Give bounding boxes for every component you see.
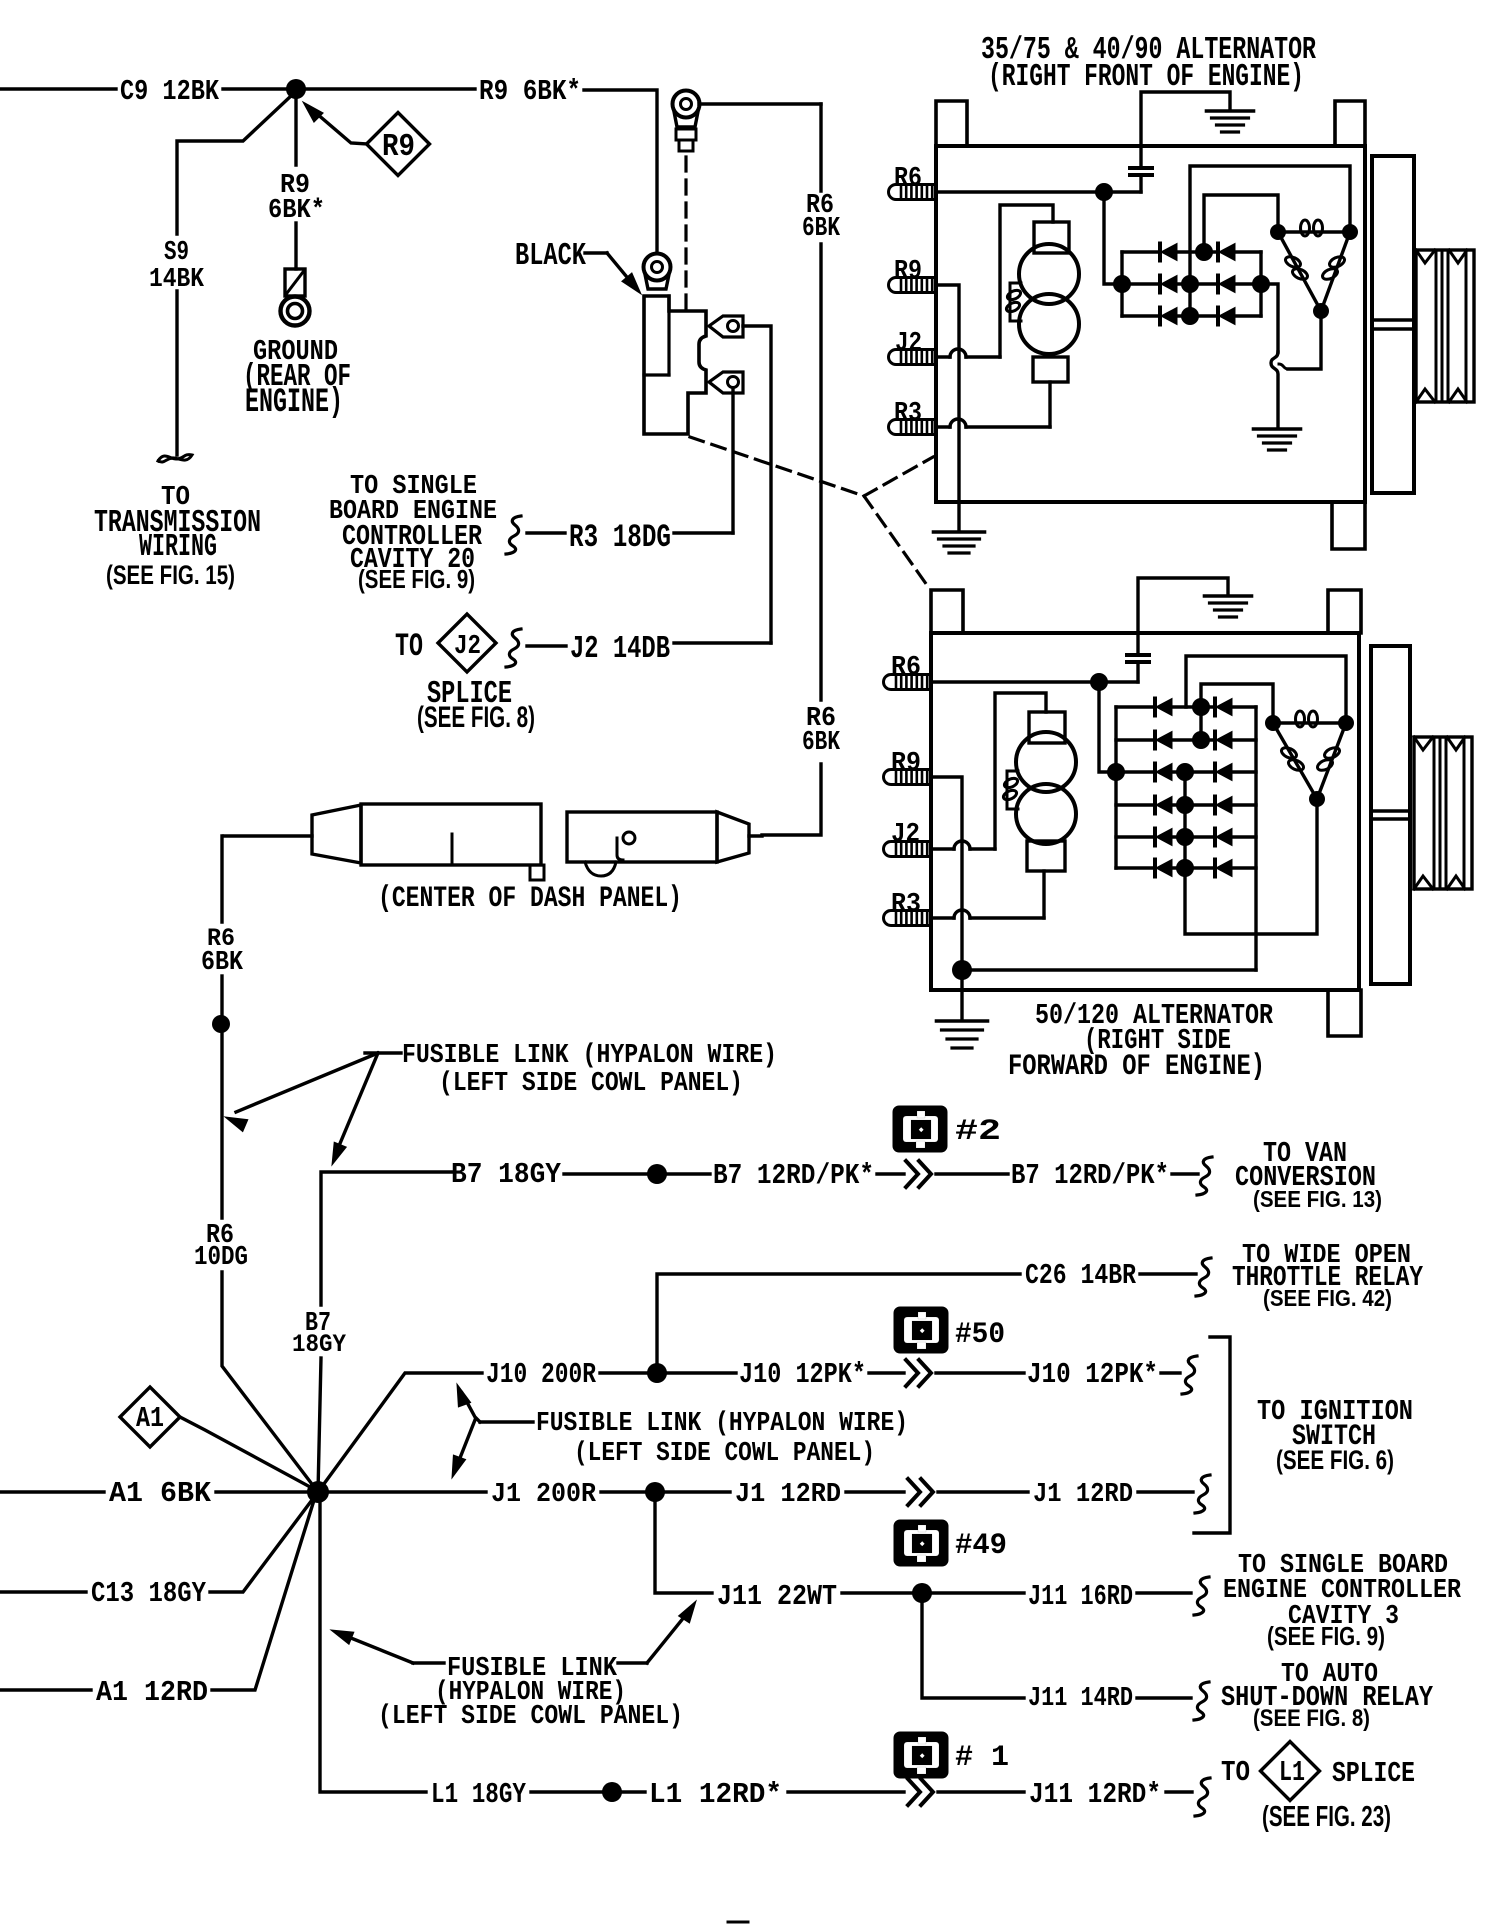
svg-text:TO: TO xyxy=(1221,1756,1250,1789)
svg-text:R9 6BK*: R9 6BK* xyxy=(479,75,581,108)
label #49 xyxy=(955,1528,1007,1562)
svg-text:J11 14RD: J11 14RD xyxy=(1028,1684,1133,1714)
label A1 in diamond xyxy=(136,1402,164,1435)
wire J2 14DB to connector xyxy=(674,641,771,644)
label (SEE FIG. 8) lower xyxy=(1253,1705,1370,1732)
svg-text:(SEE FIG. 9): (SEE FIG. 9) xyxy=(358,566,475,594)
bridge right rail alt2 xyxy=(1254,707,1257,970)
label R9 in diamond xyxy=(382,130,415,165)
wire B7 18GY to dot xyxy=(564,1172,648,1175)
wire R9 to bottom junction alt2 xyxy=(931,777,962,961)
wire row6 right alt2 xyxy=(1232,866,1256,869)
label FUSIBLE LINK (HYPALON WIRE) 1 xyxy=(402,1041,777,1071)
dashed pointer to alternators xyxy=(690,437,933,588)
wire C9 to junction xyxy=(223,87,288,90)
leader BLACK to connector xyxy=(585,253,641,294)
wire R6 6BK vertical (upper) xyxy=(819,104,822,191)
alt1 mounting tab bottom-right xyxy=(1332,502,1365,549)
label CAVITY 3 xyxy=(1288,1602,1399,1632)
bracket to ignition switch xyxy=(1194,1337,1230,1533)
connector chevron L1 xyxy=(908,1779,933,1805)
wire right bullet to R6 6BK xyxy=(749,834,762,837)
label J10 12PK* right xyxy=(1027,1358,1158,1391)
svg-text:(LEFT SIDE COWL PANEL): (LEFT SIDE COWL PANEL) xyxy=(574,1439,875,1469)
svg-text:6BK: 6BK xyxy=(802,728,841,758)
svg-text:(SEE FIG. 6): (SEE FIG. 6) xyxy=(1276,1444,1394,1475)
svg-text:J2: J2 xyxy=(895,329,922,359)
node rail dot alt2 xyxy=(1107,763,1125,781)
diamond J2 xyxy=(438,614,496,672)
svg-text:B7 18GY: B7 18GY xyxy=(451,1158,561,1191)
wire B7 chevron to label xyxy=(936,1172,1008,1175)
svg-text:(SEE FIG. 13): (SEE FIG. 13) xyxy=(1253,1186,1382,1212)
wire row3 mid alt1 xyxy=(1177,314,1218,317)
ground lug ring xyxy=(281,297,310,326)
wire J11 12RD* to squiggle xyxy=(1166,1790,1192,1793)
wire TL riser alt2 xyxy=(1201,684,1273,740)
connector chevron B7 xyxy=(906,1161,931,1187)
connector body xyxy=(644,296,706,434)
squiggle J10 xyxy=(1182,1356,1197,1394)
label CONVERSION xyxy=(1235,1161,1376,1194)
label ENGINE) xyxy=(245,383,343,422)
label TO (J2 splice) xyxy=(395,628,423,665)
label 6BK (lower) xyxy=(802,728,841,758)
wire R6 10DG to star xyxy=(222,1272,318,1492)
node J10 junction xyxy=(647,1363,667,1383)
wire R6 10DG upper xyxy=(220,1025,223,1218)
label TO (L1) xyxy=(1221,1756,1250,1789)
label SWITCH xyxy=(1292,1419,1376,1453)
svg-text:FORWARD OF ENGINE): FORWARD OF ENGINE) xyxy=(1008,1049,1265,1083)
svg-text:J11 12RD*: J11 12RD* xyxy=(1029,1778,1161,1811)
label # 1 xyxy=(955,1740,1009,1774)
wire C26 riser xyxy=(657,1274,1020,1373)
wire A1 12RD to star xyxy=(212,1497,315,1690)
bullet connector male xyxy=(567,812,749,876)
crimp barrel xyxy=(676,129,696,151)
label R9 terminal alt2 xyxy=(891,749,921,779)
alt1 mounting tab top-left xyxy=(936,101,967,146)
node star junction xyxy=(307,1481,329,1503)
node row3 dot alt2 xyxy=(1176,763,1194,781)
label R6 (10DG) xyxy=(206,1221,234,1251)
svg-text:A1 12RD: A1 12RD xyxy=(96,1676,208,1709)
wire rail to ground alt1 xyxy=(1261,284,1278,427)
wire J1 chevron to label xyxy=(938,1490,1028,1493)
spade terminal 2 xyxy=(709,372,743,393)
brushes alt1 xyxy=(1005,283,1022,321)
svg-text:J2: J2 xyxy=(454,632,481,662)
node rail dot alt1 xyxy=(1113,275,1131,293)
node junction C9/R9/S9 xyxy=(286,79,306,99)
svg-text:J2 14DB: J2 14DB xyxy=(570,632,670,667)
field coil frame top alt2 xyxy=(1029,712,1065,743)
diode D2 alt2 row1 xyxy=(1215,699,1232,716)
alternator 1 case xyxy=(936,146,1365,502)
wire B7 dot to label xyxy=(666,1172,710,1175)
wire delta bottom down alt1 xyxy=(1279,311,1321,369)
svg-text:A1: A1 xyxy=(136,1402,164,1435)
label TO VAN xyxy=(1263,1137,1347,1170)
label (RIGHT FRONT OF ENGINE) xyxy=(988,60,1304,95)
break symbol transmission wiring xyxy=(158,455,192,462)
wire L1 dot to label xyxy=(621,1790,645,1793)
diode D8 alt2 row4 xyxy=(1215,797,1232,814)
wire bridge to delta bottom alt2 xyxy=(1185,799,1317,934)
leader fusible3 left arrow xyxy=(331,1630,444,1663)
label A1 6BK xyxy=(109,1477,212,1510)
wire B7 to chevron xyxy=(877,1172,904,1175)
squiggle J1 xyxy=(1195,1475,1210,1513)
wire J1 to dot xyxy=(601,1490,647,1493)
node row6 dot alt2 xyxy=(1176,859,1194,877)
bullet connector female xyxy=(312,804,544,880)
brushes alt2 xyxy=(1002,771,1019,809)
node J11 junction xyxy=(912,1583,932,1603)
wire row5 mid alt2 xyxy=(1172,835,1215,838)
wire A1 6BK entry xyxy=(0,1490,104,1493)
svg-text:(SEE FIG. 15): (SEE FIG. 15) xyxy=(106,559,235,590)
connector icon #50 xyxy=(894,1307,948,1353)
diamond A1 xyxy=(120,1387,180,1447)
connector icon #1 xyxy=(894,1732,948,1778)
label C13 18GY xyxy=(91,1577,206,1610)
wire star to J1 200R xyxy=(329,1490,486,1493)
wire row1 right alt1 xyxy=(1235,250,1261,253)
svg-text:(SEE FIG. 8): (SEE FIG. 8) xyxy=(417,701,535,734)
svg-text:R3 18DG: R3 18DG xyxy=(569,519,671,556)
wire star down to L1 xyxy=(320,1503,426,1792)
svg-text:(RIGHT FRONT OF ENGINE): (RIGHT FRONT OF ENGINE) xyxy=(988,60,1304,95)
ground lug crimp xyxy=(285,269,305,296)
diamond R9 xyxy=(367,113,430,176)
diode D2 alt1 row1 xyxy=(1218,244,1235,261)
terminal R6 alt1 xyxy=(889,185,936,200)
wire row1 mid alt1 xyxy=(1177,250,1218,253)
label J1 200R xyxy=(491,1480,597,1510)
svg-text:#2: #2 xyxy=(955,1114,1001,1148)
svg-text:18GY: 18GY xyxy=(292,1330,347,1359)
label FUSIBLE LINK 3 xyxy=(447,1654,618,1684)
field coil rotor alt2 xyxy=(1016,732,1076,844)
diode D1 alt1 row1 xyxy=(1122,244,1177,261)
node delta bottom alt1 xyxy=(1313,303,1329,319)
alt2 mounting tab top-left xyxy=(931,590,963,633)
label #2 xyxy=(955,1114,1001,1148)
label BOARD ENGINE xyxy=(329,497,497,527)
terminal R3 alt1 xyxy=(889,420,936,435)
wire row5 right alt2 xyxy=(1232,835,1256,838)
label (SEE FIG. 8) xyxy=(417,701,535,734)
terminal J2 alt2 xyxy=(884,842,932,857)
label 6BK* xyxy=(268,196,325,226)
label L1 12RD* xyxy=(649,1778,782,1811)
wire C13 18GY entry xyxy=(0,1590,86,1593)
wire row6 mid alt2 xyxy=(1172,866,1215,869)
label (LEFT SIDE COWL PANEL) 1 xyxy=(439,1069,743,1099)
node ground junction alt2 xyxy=(952,960,972,980)
ground symbol alt2 bottom xyxy=(937,1021,988,1048)
label TRANSMISSION xyxy=(94,506,261,541)
squiggle J11 14RD xyxy=(1194,1682,1209,1720)
connector icon #2 xyxy=(893,1106,947,1152)
field coil frame top alt1 xyxy=(1034,222,1069,253)
node row1 dot alt1 xyxy=(1195,243,1213,261)
wire row4 right alt2 xyxy=(1232,803,1256,806)
label J2 in diamond xyxy=(454,632,481,662)
wire J10 dot to label xyxy=(666,1371,736,1374)
label R9 terminal alt1 xyxy=(894,257,922,287)
wire A1 6BK to star xyxy=(216,1490,308,1493)
wire J11 dot to label xyxy=(931,1591,1024,1594)
node delta bottom alt2 xyxy=(1309,791,1325,807)
wire J11 14RD to squiggle xyxy=(1137,1696,1191,1699)
diode D3 alt1 row2 xyxy=(1122,276,1177,293)
label CAVITY 20 xyxy=(350,543,475,576)
node J1 junction xyxy=(645,1482,665,1502)
bridge left rail alt1 xyxy=(1120,252,1123,316)
svg-text:10DG: 10DG xyxy=(194,1243,248,1273)
diode D1 alt2 row1 xyxy=(1116,699,1172,716)
bridge mid vertical B alt2 xyxy=(1183,772,1186,868)
wire J11 to dot xyxy=(842,1591,913,1594)
wire R3 line alt2 xyxy=(931,910,1044,918)
wire row2 mid alt2 xyxy=(1172,738,1215,741)
svg-text:#49: #49 xyxy=(955,1528,1007,1562)
wire J10 to dot xyxy=(600,1371,648,1374)
node row1 dot alt2 xyxy=(1192,698,1210,716)
label (HYPALON WIRE) 3 xyxy=(435,1678,626,1708)
terminal J2 alt1 xyxy=(889,350,936,365)
svg-text:(SEE FIG. 9): (SEE FIG. 9) xyxy=(1267,1623,1385,1651)
svg-text:J1 200R: J1 200R xyxy=(491,1480,597,1510)
label R9 (vertical wire) xyxy=(280,171,310,201)
label WIRING xyxy=(139,530,217,565)
wire J2 line alt1 xyxy=(936,349,1000,357)
label SPLICE xyxy=(427,677,512,712)
wire J1 to squiggle xyxy=(1138,1490,1193,1493)
label (SEE FIG. 13) xyxy=(1253,1186,1382,1212)
capacitor alt1 xyxy=(1130,146,1152,192)
alt1 mounting tab top-right xyxy=(1335,101,1365,146)
label FUSIBLE LINK (HYPALON WIRE) 2 xyxy=(536,1409,908,1439)
node R6 dot alt2 xyxy=(1090,673,1108,691)
node R6 dot alt1 xyxy=(1095,183,1113,201)
svg-text:J1 12RD: J1 12RD xyxy=(1033,1480,1133,1510)
label FORWARD OF ENGINE) xyxy=(1008,1049,1265,1083)
label (LEFT SIDE COWL PANEL) 2 xyxy=(574,1439,875,1469)
leader fusible1 to B7 wire xyxy=(332,1053,378,1165)
bridge left rail alt2 xyxy=(1114,707,1117,868)
node R6 junction xyxy=(212,1015,230,1033)
wire R9 6BK* to ring terminal xyxy=(584,90,657,252)
svg-text:J10 12PK*: J10 12PK* xyxy=(739,1358,866,1391)
label (SEE FIG. 6) xyxy=(1276,1444,1394,1475)
squiggle L1 xyxy=(1195,1778,1210,1816)
wire field bottom to R3 alt2 xyxy=(1042,871,1045,918)
wire R3 18DG to connector xyxy=(674,531,733,534)
wire L1 to dot xyxy=(531,1790,603,1793)
wire J10 to squiggle xyxy=(1161,1371,1180,1374)
wire S9 diagonal+horiz xyxy=(177,95,292,234)
svg-text:J1 12RD: J1 12RD xyxy=(735,1480,841,1510)
label (SEE FIG. 23) xyxy=(1262,1801,1391,1833)
wire R6 to junction dot xyxy=(220,976,223,1025)
node delta TL alt1 xyxy=(1270,224,1286,240)
label TO xyxy=(161,483,190,513)
ground symbol alt2 top xyxy=(1205,596,1252,617)
label J11 14RD xyxy=(1028,1684,1133,1714)
label J10 200R xyxy=(486,1358,597,1391)
svg-text:SPLICE: SPLICE xyxy=(1332,1757,1415,1790)
squiggle J11 16RD xyxy=(1194,1577,1209,1615)
wire R6 dot to bridge alt2 xyxy=(1099,682,1108,772)
wire J10 chevron to label xyxy=(936,1371,1024,1374)
label (LEFT SIDE COWL PANEL) 3 xyxy=(378,1702,683,1732)
leader fusible2 xyxy=(452,1384,533,1478)
label (SEE FIG. 9) lower xyxy=(1267,1623,1385,1651)
label B7 12RD/PK* right xyxy=(1011,1159,1169,1192)
ground symbol alt1 mid xyxy=(1254,429,1301,450)
svg-text:BLACK: BLACK xyxy=(515,239,586,274)
connector chevron J10 xyxy=(906,1360,931,1386)
svg-text:(CENTER OF DASH PANEL): (CENTER OF DASH PANEL) xyxy=(378,881,682,915)
label J10 12PK* left xyxy=(739,1358,866,1391)
wire row1 mid alt2 xyxy=(1172,705,1215,708)
alternator 2 case xyxy=(931,633,1359,990)
svg-text:(LEFT SIDE COWL PANEL): (LEFT SIDE COWL PANEL) xyxy=(378,1702,683,1732)
svg-text:S9: S9 xyxy=(164,238,189,268)
wire row1 dot to delta TL alt1 xyxy=(1204,195,1278,252)
node row4 dot alt2 xyxy=(1176,796,1194,814)
label J1 12RD left xyxy=(735,1480,841,1510)
svg-text:J11 16RD: J11 16RD xyxy=(1028,1580,1133,1613)
wire to ground lug xyxy=(294,223,297,269)
svg-text:6BK: 6BK xyxy=(201,948,244,978)
label B7 (vertical) xyxy=(305,1309,331,1339)
bridge right rail alt1 xyxy=(1259,252,1262,316)
svg-text:L1 18GY: L1 18GY xyxy=(431,1778,526,1811)
field coil frame bottom alt1 xyxy=(1033,357,1068,382)
label 14BK xyxy=(149,265,205,295)
wire to R3 18DG xyxy=(527,531,565,534)
wire R6 6BK vertical to dash panel xyxy=(762,764,821,835)
node L1 junction xyxy=(602,1782,622,1802)
label B7 18GY xyxy=(451,1158,561,1191)
wire R6 line alt2 xyxy=(931,680,1138,683)
wire row3 right alt1 xyxy=(1235,314,1261,317)
label ENGINE CONTROLLER xyxy=(1223,1576,1462,1606)
spade terminal 1 xyxy=(709,316,743,337)
wire row4 mid alt2 xyxy=(1172,803,1215,806)
svg-text:J10 200R: J10 200R xyxy=(486,1358,597,1391)
wire field top to J2 alt2 xyxy=(995,693,1046,849)
node B7 junction xyxy=(647,1164,667,1184)
terminal R9 alt1 xyxy=(889,278,936,293)
diode D6 alt1 row3 xyxy=(1218,308,1235,325)
alt2 mounting tab top-right xyxy=(1328,590,1361,633)
wire R3 line alt1 xyxy=(936,419,1050,427)
wire spade1 to J2 14DB xyxy=(743,326,771,643)
wire field bottom to R3 alt1 xyxy=(1048,382,1051,427)
wire L1 to chevron xyxy=(788,1790,904,1793)
label GROUND xyxy=(253,335,338,368)
svg-text:R9: R9 xyxy=(382,130,415,165)
diode D4 alt2 row2 xyxy=(1215,732,1232,749)
wire B7 to squiggle xyxy=(1172,1172,1198,1175)
label J2 14DB xyxy=(570,632,670,667)
wire TR riser alt2 xyxy=(1186,656,1346,723)
leader arrow to junction from R9 diamond xyxy=(303,102,367,144)
svg-text:(SEE FIG. 42): (SEE FIG. 42) xyxy=(1263,1285,1392,1311)
wire to left bullet xyxy=(224,834,312,837)
svg-text:ENGINE): ENGINE) xyxy=(245,383,343,422)
svg-text:(SEE FIG. 23): (SEE FIG. 23) xyxy=(1262,1801,1391,1833)
diode D4 alt1 row2 xyxy=(1218,276,1235,293)
svg-text:J10 12PK*: J10 12PK* xyxy=(1027,1358,1158,1391)
node row3 dot alt1 xyxy=(1181,307,1199,325)
node row2 dot alt2 xyxy=(1192,731,1210,749)
wire C13 18GY to star xyxy=(210,1496,315,1592)
alt2 pulley xyxy=(1414,737,1472,889)
diode D6 alt2 row3 xyxy=(1215,764,1232,781)
diamond L1 xyxy=(1261,1742,1320,1801)
connector icon #49 xyxy=(894,1520,948,1566)
diode D10 alt2 row5 xyxy=(1215,829,1232,846)
label R6 (lower) xyxy=(806,704,836,734)
label #50 xyxy=(955,1317,1005,1351)
wire R9 to ground alt1 xyxy=(936,285,959,531)
ground symbol alt1 top xyxy=(1207,111,1254,132)
wire R9 6BK* down from junction xyxy=(294,99,297,165)
label 18GY (vertical) xyxy=(292,1330,347,1359)
wire spade2 to R3 18DG xyxy=(731,388,734,533)
svg-text:TO: TO xyxy=(395,628,423,665)
wire B7 corner xyxy=(321,1172,452,1305)
wire J10 to chevron xyxy=(869,1371,904,1374)
label TO AUTO xyxy=(1281,1660,1378,1690)
label 50/120 ALTERNATOR xyxy=(1035,999,1274,1032)
label J11 22WT xyxy=(717,1580,837,1613)
wire A1 12RD entry xyxy=(0,1688,91,1691)
svg-text:C26 14BR: C26 14BR xyxy=(1025,1259,1137,1292)
label S9 xyxy=(164,238,189,268)
label R3 terminal alt2 xyxy=(891,890,921,920)
svg-text:C9 12BK: C9 12BK xyxy=(120,75,220,108)
label R6 terminal alt2 xyxy=(891,653,921,683)
wire R6 dot to bridge alt1 xyxy=(1104,192,1114,284)
label J2 terminal alt2 xyxy=(891,820,920,850)
node delta TL alt2 xyxy=(1265,715,1281,731)
label J2 terminal alt1 xyxy=(895,329,922,359)
label B7 12RD/PK* left xyxy=(713,1159,874,1192)
wire C26 to squiggle xyxy=(1140,1272,1196,1275)
ground symbol alt1 bottom xyxy=(934,532,985,553)
label (RIGHT SIDE xyxy=(1084,1024,1231,1057)
terminal R9 alt2 xyxy=(884,770,932,785)
alt1 rear bracket xyxy=(1372,156,1414,493)
svg-text:(LEFT SIDE COWL PANEL): (LEFT SIDE COWL PANEL) xyxy=(439,1069,743,1099)
label C26 14BR xyxy=(1025,1259,1137,1292)
squiggle B7 xyxy=(1197,1157,1212,1195)
label TO SINGLE BOARD xyxy=(1238,1551,1448,1581)
node row2 right dot alt1 xyxy=(1252,275,1270,293)
wire row2 mid alt1 xyxy=(1177,282,1218,285)
wire top to delta TR alt1 xyxy=(1190,166,1350,316)
alt2 mounting tab bottom-right xyxy=(1328,990,1361,1036)
field coil frame bottom alt2 xyxy=(1027,841,1065,871)
